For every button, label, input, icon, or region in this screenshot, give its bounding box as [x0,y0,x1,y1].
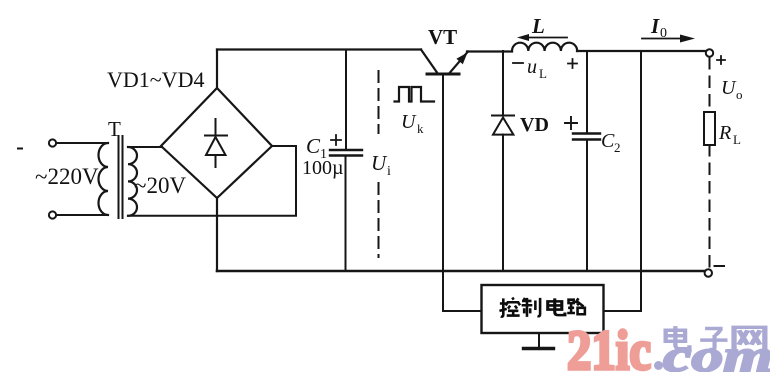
wire bottom rail [217,270,704,273]
svg-text:u: u [527,56,537,78]
wire bridge bottom riser [216,198,218,271]
terminal circle AC input bottom [49,211,56,218]
capacitor C2 bottom lead [586,140,588,271]
svg-text:2: 2 [614,140,621,155]
scan speck [18,148,22,150]
wire feedback from output rail to control box [604,52,642,312]
inductor L [512,43,577,51]
bridge rectifier VD1~VD4 [161,88,272,198]
transistor VT collector slant with arrow [450,52,468,73]
svg-text:T: T [108,117,121,141]
label L [531,14,545,38]
svg-text:~220V: ~220V [35,164,99,189]
arrow I0 output current [642,35,695,43]
ground [524,333,554,349]
minus output [715,265,725,267]
svg-text:U: U [721,77,737,99]
label T [108,117,121,141]
svg-text:i: i [387,164,391,179]
arrow uL direction [517,34,567,41]
label C1 [306,134,327,162]
diode VD lead bottom [502,135,504,272]
label -uL+ [513,56,577,81]
capacitor C1 plates [330,150,362,156]
node Ui dashed measure line [378,71,380,257]
label VT [428,25,457,49]
resistor RL [704,112,715,145]
wire bridge top riser [216,50,218,89]
svg-text:I: I [650,14,660,38]
diode symbol inside bridge [205,119,227,167]
svg-text:VT: VT [428,25,457,49]
transistor VT emitter slant [421,50,437,73]
label I0 [650,14,667,41]
transformer T primary winding [99,143,108,215]
waveform Uk pulse glyph [395,87,435,102]
label ~220V [35,164,99,189]
label 100u [302,157,344,179]
svg-text:L: L [531,14,545,38]
watermark dot [654,361,663,370]
svg-text:0: 0 [660,26,667,41]
svg-text:L: L [733,132,741,147]
terminal circle output plus [706,49,713,56]
wire top rail right [467,50,512,52]
svg-text:VD1~VD4: VD1~VD4 [107,67,204,92]
label RL [718,122,741,147]
capacitor C2 plates [573,134,600,140]
svg-text:k: k [417,121,424,136]
wire base to control box [443,310,482,312]
capacitor C2 top lead [586,51,588,133]
label control circuit (kong zhi dian lu) [499,298,584,317]
watermark com [663,330,770,372]
capacitor C1 top lead [345,50,347,151]
wire dashed output bottom [709,145,711,269]
svg-text:R: R [718,122,731,144]
svg-text:o: o [736,87,743,102]
transformer T core [119,136,123,218]
plus polarity C1 [331,135,341,145]
transistor VT base bar [427,73,459,76]
transformer T secondary winding [128,147,137,216]
svg-text:~20V: ~20V [134,173,186,198]
plus output [717,56,725,64]
label VD [520,114,549,136]
watermark dian zi wang [666,326,765,351]
svg-text:C: C [306,134,321,158]
svg-text:L: L [539,66,547,81]
svg-text:100µ: 100µ [302,157,344,179]
label ~20V [134,173,186,198]
label Ui [371,151,391,179]
wire AC input bottom [56,214,108,216]
label Uo [721,77,743,102]
wire top rail after L [577,50,706,52]
terminal circle output minus [705,269,712,276]
capacitor C1 bottom lead [345,156,347,272]
svg-text:C: C [601,130,615,152]
svg-text:U: U [371,151,388,175]
label Uk [401,111,424,136]
terminal circle AC input top [49,139,56,146]
diode VD symbol [492,116,514,135]
wire secondary bottom to bridge right vertex [128,146,296,216]
wire VT base lead down [442,75,444,311]
svg-text:VD: VD [520,114,549,136]
wire top rail left [217,48,421,50]
svg-text:U: U [401,111,417,133]
label C2 [601,130,621,155]
label VD1~VD4 [107,67,204,92]
watermark 21ic [567,320,651,372]
wire AC input top [56,142,108,144]
wire secondary top to bridge [128,146,162,148]
svg-text:21ic: 21ic [567,320,651,372]
wire dashed output top [709,58,711,112]
plus polarity C2 [565,117,577,129]
control circuit box [482,285,604,333]
diode VD lead top [502,51,504,116]
